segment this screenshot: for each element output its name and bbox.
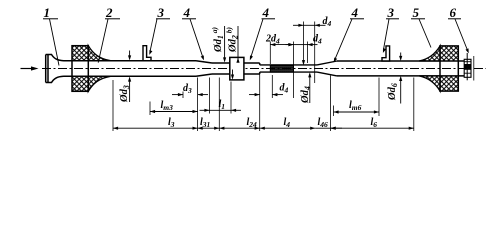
bell left end	[46, 55, 64, 83]
callout 1	[43, 5, 59, 66]
svg-text:2: 2	[105, 5, 113, 20]
cone left (hatched)	[72, 46, 111, 92]
dim l31	[198, 117, 220, 130]
centerline	[42, 68, 486, 70]
dim l46	[315, 117, 342, 130]
svg-text:5: 5	[413, 5, 420, 20]
wire shaft d6 section	[337, 61, 464, 76]
callout 2	[98, 5, 120, 63]
svg-text:4: 4	[351, 5, 359, 20]
callout 5	[411, 5, 431, 48]
dim d4 upper top	[293, 16, 332, 28]
dim l1	[200, 99, 242, 112]
cone right (hatched)	[419, 46, 458, 91]
svg-text:4: 4	[262, 5, 270, 20]
dim l4	[260, 117, 316, 130]
dim d4 horizontal	[249, 83, 289, 97]
dim Od1 label rotated	[210, 26, 226, 63]
dim l24	[219, 117, 259, 130]
dim lm3	[150, 100, 198, 113]
dim Od3 vertical	[119, 51, 131, 104]
feed arrow	[21, 68, 35, 70]
clip right (mirrored L)	[382, 46, 390, 61]
clip left (L-shape)	[143, 46, 151, 61]
dim d4 mid top	[286, 34, 323, 47]
dim lm6	[334, 100, 380, 116]
dim d3 horizontal	[172, 83, 208, 96]
taper up right	[317, 61, 337, 76]
dim Od6 vertical	[387, 53, 402, 104]
wire thin middle section	[260, 65, 317, 72]
wire d1 right of block	[244, 63, 260, 74]
callout 6	[448, 5, 469, 53]
callout 4b	[250, 5, 275, 60]
dim l3	[113, 117, 198, 130]
knurl section	[270, 65, 293, 72]
svg-text:3: 3	[387, 5, 395, 20]
callout 3 left	[149, 5, 170, 55]
svg-text:3: 3	[157, 5, 165, 20]
callout 4c	[334, 5, 364, 62]
dim l6	[331, 117, 414, 130]
arrow inside block bottom	[232, 70, 234, 79]
callout 4a	[182, 5, 204, 60]
dim Od2 label rotated	[225, 26, 240, 63]
callout 3 right	[383, 5, 399, 53]
dim 2d4 top	[265, 34, 294, 47]
svg-text:6: 6	[450, 5, 457, 20]
svg-text:1: 1	[44, 5, 51, 20]
svg-text:4: 4	[183, 5, 191, 20]
block middle (d2)	[230, 57, 244, 80]
end piece nut	[464, 59, 471, 77]
dim Od4 vertical	[300, 60, 312, 104]
extension lines	[113, 22, 414, 132]
wire shaft d3 section	[64, 61, 230, 77]
